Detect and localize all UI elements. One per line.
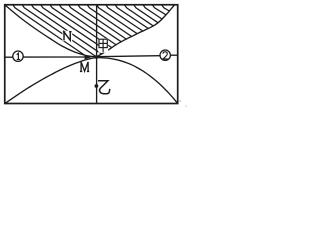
hatching of upper region — [13, 5, 169, 57]
wire: mid-line from centre M to circle 2 — [97, 56, 160, 57]
upper curve right branch — [97, 5, 175, 57]
lower curve (dome) left branch — [5, 58, 97, 104]
vertical line through M — [96, 6, 98, 103]
circled label 1 — [13, 51, 23, 61]
speck below-right — [185, 106, 188, 108]
arrowhead pointing right toward M — [85, 55, 93, 60]
wire: mid-line tick right of circle 2 — [170, 54, 177, 56]
circled label 2 — [160, 50, 170, 60]
border frame — [5, 5, 178, 104]
label M — [80, 62, 89, 72]
label N — [62, 31, 72, 41]
speck near bottom-right corner — [179, 100, 181, 102]
lower curve (dome) right branch — [97, 58, 178, 104]
label 甲 (jiǎ) — [98, 38, 108, 52]
label 乙 (yǐ) — [98, 81, 110, 94]
wire: mid-line tick left of circle 1 — [6, 56, 13, 58]
node M junction point — [94, 55, 99, 58]
marked point on vertical line (labelled 乙) — [95, 84, 99, 88]
upper curve left branch — [5, 5, 97, 57]
wire: mid-line from circle 1 to arrow — [23, 56, 85, 58]
